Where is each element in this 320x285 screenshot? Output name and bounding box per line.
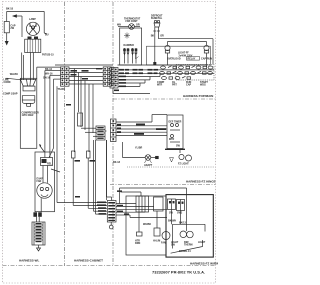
svg-text:BK/WH: BK/WH bbox=[168, 220, 176, 223]
svg-text:WH-BK: WH-BK bbox=[10, 73, 19, 76]
svg-text:115V 60HZ: 115V 60HZ bbox=[22, 114, 35, 117]
svg-text:BK-18: BK-18 bbox=[113, 161, 121, 164]
svg-text:HI-LIM: HI-LIM bbox=[153, 240, 160, 243]
svg-text:DRN: DRN bbox=[135, 242, 140, 245]
svg-text:OR: OR bbox=[160, 35, 164, 38]
svg-text:BK/WH-14: BK/WH-14 bbox=[179, 250, 191, 253]
svg-text:OR: OR bbox=[136, 24, 140, 27]
svg-text:DAMPER: DAMPER bbox=[124, 44, 135, 47]
svg-text:CORD: CORD bbox=[4, 81, 11, 84]
svg-text:WH-16: WH-16 bbox=[45, 73, 53, 76]
svg-text:LIGHT: LIGHT bbox=[198, 241, 206, 244]
svg-text:SW2: SW2 bbox=[177, 212, 183, 215]
svg-text:BK/13: BK/13 bbox=[179, 222, 186, 225]
svg-text:FAN: FAN bbox=[37, 180, 42, 183]
svg-text:MTR: MTR bbox=[169, 138, 174, 141]
svg-text:BU: BU bbox=[45, 34, 49, 37]
svg-text:COMP 1/3HP: COMP 1/3HP bbox=[3, 93, 18, 96]
svg-text:HARNESS-WL: HARNESS-WL bbox=[19, 259, 39, 263]
svg-text:DEF TIMER: DEF TIMER bbox=[169, 121, 182, 124]
svg-text:THERM: THERM bbox=[184, 244, 193, 247]
svg-text:LAMP: LAMP bbox=[29, 18, 36, 21]
svg-text:CAP-RUN: CAP-RUN bbox=[201, 58, 212, 61]
svg-text:73232607 PR-8/02 YK U.S.A.: 73232607 PR-8/02 YK U.S.A. bbox=[152, 270, 205, 275]
svg-text:WH/BK: WH/BK bbox=[143, 223, 151, 226]
svg-text:MTR: MTR bbox=[157, 84, 162, 87]
svg-text:BK: BK bbox=[151, 35, 155, 38]
svg-text:HARNESS-TOP/MAIN: HARNESS-TOP/MAIN bbox=[183, 94, 213, 98]
svg-text:YL/BR: YL/BR bbox=[135, 147, 142, 150]
svg-text:PRT: PRT bbox=[172, 84, 177, 87]
svg-text:RELAY: RELAY bbox=[188, 57, 196, 60]
svg-text:TS-BK: TS-BK bbox=[58, 88, 66, 91]
svg-text:FZ LIGHT: FZ LIGHT bbox=[178, 163, 189, 166]
svg-text:GN-16: GN-16 bbox=[43, 76, 51, 79]
svg-text:FAN: FAN bbox=[161, 242, 166, 245]
svg-text:WDG: WDG bbox=[200, 84, 206, 87]
svg-text:BK-16: BK-16 bbox=[45, 68, 53, 71]
svg-text:HARNESS-FZ WIRING: HARNESS-FZ WIRING bbox=[190, 262, 218, 266]
svg-text:BI-METAL: BI-METAL bbox=[151, 17, 163, 20]
svg-text:CAP: CAP bbox=[186, 84, 191, 87]
svg-text:HARNESS-CABINET: HARNESS-CABINET bbox=[74, 259, 103, 263]
svg-text:OVERLOAD: OVERLOAD bbox=[167, 58, 181, 61]
svg-text:P57025-15: P57025-15 bbox=[42, 54, 54, 57]
svg-text:WH: WH bbox=[117, 24, 121, 27]
svg-text:BK-18: BK-18 bbox=[6, 8, 14, 11]
svg-text:REL: REL bbox=[47, 162, 52, 165]
svg-text:HARNESS-FZ HINGE: HARNESS-FZ HINGE bbox=[186, 180, 216, 184]
svg-text:ADAPT: ADAPT bbox=[144, 164, 153, 167]
